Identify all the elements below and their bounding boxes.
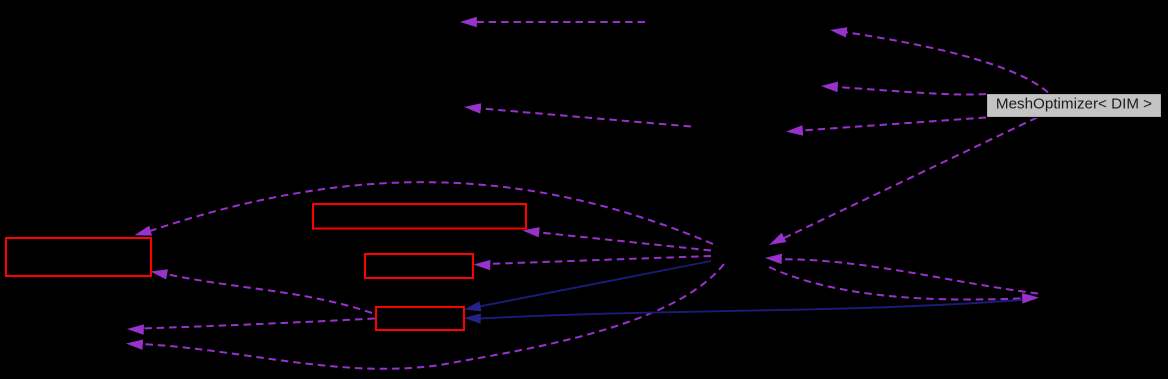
svg-text:MeshOptimizer< DIM >: MeshOptimizer< DIM > — [996, 96, 1152, 113]
